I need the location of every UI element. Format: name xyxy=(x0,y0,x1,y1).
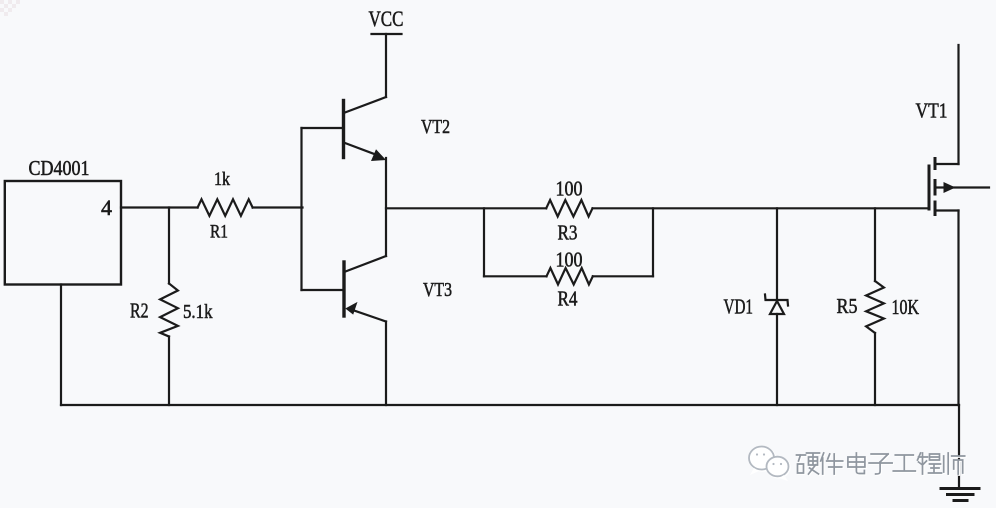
wire R4 branch right vertical xyxy=(652,208,654,276)
wire base join vertical xyxy=(300,128,302,290)
svg-text:R1: R1 xyxy=(210,222,228,243)
VCC supply xyxy=(369,6,404,97)
svg-text:VCC: VCC xyxy=(369,6,404,31)
svg-text:1k: 1k xyxy=(214,169,230,190)
svg-text:R3: R3 xyxy=(558,221,578,245)
resistor R1 xyxy=(198,199,253,216)
svg-text:100: 100 xyxy=(556,248,583,272)
resistor R3 xyxy=(546,200,592,217)
svg-text:5.1k: 5.1k xyxy=(183,301,213,323)
resistor R5 xyxy=(866,208,884,405)
MOSFET VT1 xyxy=(929,159,989,215)
corner artifact xyxy=(0,0,20,16)
wire R4 branch left vertical xyxy=(483,208,485,276)
svg-text:VD1: VD1 xyxy=(724,295,754,319)
svg-text:CD4001: CD4001 xyxy=(29,156,90,180)
resistor R2 xyxy=(160,208,178,406)
svg-text:10K: 10K xyxy=(892,295,920,319)
wire box bottom lead xyxy=(60,285,62,406)
wire R4 to right node xyxy=(593,275,653,277)
wire bottom rail xyxy=(61,404,959,406)
wire ground drop xyxy=(958,405,960,488)
svg-text:4: 4 xyxy=(101,195,112,220)
transistor VT2 xyxy=(302,97,387,161)
wire emitter junction vertical xyxy=(385,158,387,256)
svg-text:VT3: VT3 xyxy=(423,279,452,301)
watermark text 硬件电子工程师 xyxy=(797,453,966,475)
svg-text:100: 100 xyxy=(556,177,583,201)
ground xyxy=(941,489,979,501)
transistor VT3 xyxy=(302,256,387,322)
resistor R4 xyxy=(547,268,593,285)
svg-text:VT1: VT1 xyxy=(916,99,948,123)
svg-text:R5: R5 xyxy=(837,294,858,318)
watermark logo xyxy=(749,447,789,482)
wire VT3 emitter down xyxy=(385,322,387,406)
wire output to R3 xyxy=(386,207,546,209)
wire R3 to right node xyxy=(593,207,930,209)
IC U1 CD4001 box xyxy=(5,181,121,285)
wire drain up xyxy=(957,45,959,164)
svg-text:VT2: VT2 xyxy=(421,116,450,138)
svg-text:R4: R4 xyxy=(558,287,578,311)
wire source down xyxy=(957,211,959,406)
zener diode VD1 xyxy=(765,208,788,405)
wire pin4 to R1 xyxy=(121,206,198,208)
wire R1 to base node xyxy=(253,206,303,208)
wire R4 branch left bottom xyxy=(484,275,547,277)
svg-text:R2: R2 xyxy=(130,299,149,323)
